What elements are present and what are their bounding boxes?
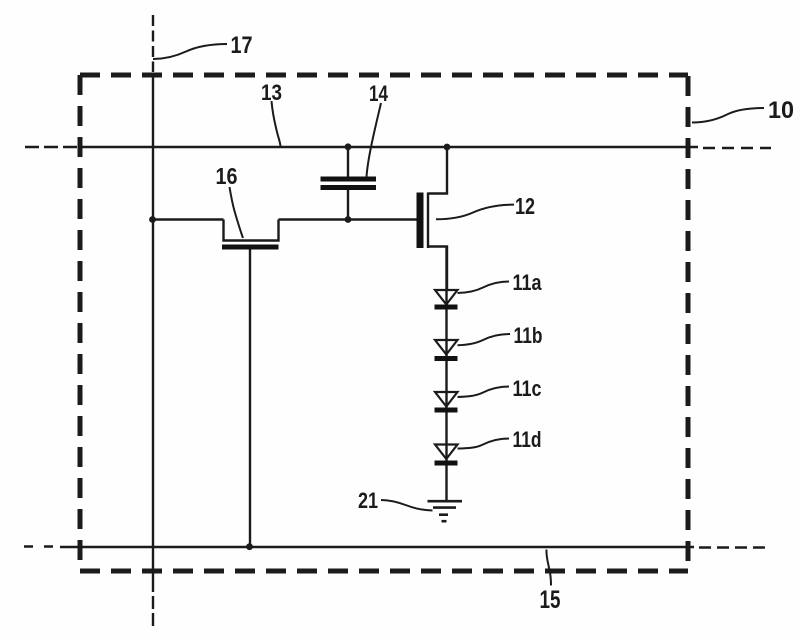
leader line for 11c: [458, 387, 510, 398]
transistor 12 (drive TFT): [417, 148, 448, 291]
leader line for 12: [436, 205, 514, 220]
svg-text:11c: 11c: [513, 376, 542, 401]
wire: diode chain column: [445, 247, 447, 501]
capacitor 14: [321, 147, 377, 220]
svg-text:17: 17: [231, 32, 253, 59]
svg-text:14: 14: [369, 81, 389, 106]
leader line for 11d: [458, 439, 510, 449]
data line 17 (vertical dashed/solid): [152, 15, 154, 627]
node C: capacitor top on scan line 13: [345, 143, 352, 150]
svg-text:11a: 11a: [513, 270, 543, 295]
pixel boundary box 10 (dashed rectangle): [80, 75, 688, 571]
svg-text:15: 15: [540, 586, 561, 614]
svg-text:12: 12: [515, 193, 535, 219]
svg-text:13: 13: [261, 80, 282, 105]
leader line for 21: [381, 500, 433, 511]
leader line for 17: [153, 44, 227, 59]
svg-text:16: 16: [216, 163, 238, 189]
svg-text:11b: 11b: [514, 323, 543, 348]
transistor 16 (switching TFT): [222, 220, 279, 547]
diode 11b: [435, 340, 458, 361]
node D: capacitor bottom on gate wire: [345, 216, 352, 223]
diode 11a: [435, 290, 458, 310]
svg-text:10: 10: [768, 97, 794, 124]
diode 11d: [435, 445, 458, 466]
svg-text:11d: 11d: [513, 427, 542, 452]
node A: junction data line / gate wire: [149, 216, 156, 223]
leader line for 13: [272, 101, 281, 147]
power line 15 (horizontal): [24, 547, 765, 548]
svg-text:21: 21: [358, 488, 378, 513]
node B: transistor 16 gate lead on power line 15: [246, 543, 253, 550]
leader line for 15: [546, 550, 551, 586]
scan line 13 (horizontal): [25, 147, 771, 148]
wire: gate net from data line 17 to transistor 12 gate: [153, 218, 417, 220]
diode 11c: [435, 392, 458, 413]
leader line for 11a: [458, 282, 510, 294]
ground 21: [428, 501, 463, 521]
leader line for 14: [367, 103, 382, 177]
node E: transistor 12 drain on scan line 13: [444, 144, 451, 151]
leader line for 11b: [458, 334, 511, 345]
leader line for 10: [692, 108, 764, 123]
leader line for 16: [230, 187, 244, 238]
